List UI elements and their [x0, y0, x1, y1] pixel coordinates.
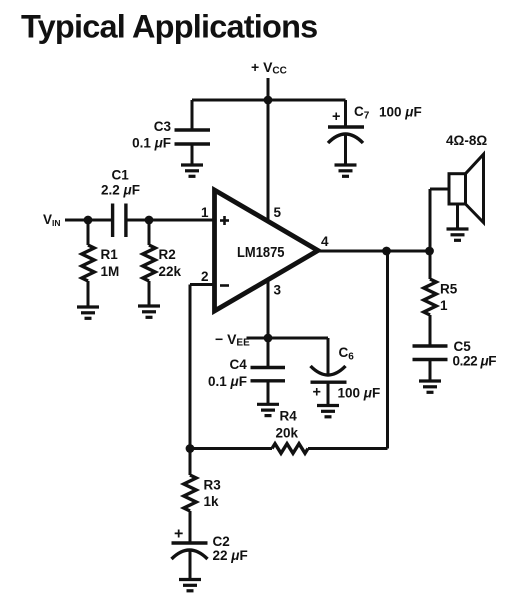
wire R3 top	[189, 449, 192, 476]
svg-text:C7: C7	[354, 104, 370, 122]
svg-text:− VEE: − VEE	[215, 331, 250, 349]
resistor R1	[82, 245, 94, 281]
node R1 junction	[84, 216, 93, 225]
ground C5	[419, 381, 441, 392]
capacitor C3	[175, 130, 211, 144]
wire input right	[126, 219, 216, 222]
svg-text:2: 2	[201, 269, 209, 284]
resistor R2	[143, 245, 155, 281]
wire C2 to ground	[189, 550, 192, 580]
capacitor C7	[328, 127, 364, 143]
node VCC junction	[264, 96, 273, 105]
wire speaker up	[429, 189, 432, 251]
wire speaker in	[430, 188, 450, 191]
wire output	[318, 250, 430, 253]
node VEE junction	[264, 334, 273, 343]
op-amp U1 LM1875 triangle	[215, 190, 319, 311]
svg-text:R2: R2	[159, 247, 176, 262]
svg-text:C1: C1	[112, 168, 130, 183]
capacitor C2	[172, 543, 208, 559]
wire feedback bottom left	[190, 447, 272, 450]
wire C6 drop	[327, 338, 330, 374]
wire top supply rail	[192, 99, 346, 102]
wire pin2 stub	[190, 283, 216, 286]
svg-text:R1: R1	[101, 247, 119, 262]
wire VCC stub	[267, 78, 270, 100]
svg-text:C5: C5	[454, 339, 472, 354]
capacitor C6	[311, 366, 347, 382]
ground R2	[138, 306, 160, 317]
speaker LS1	[449, 154, 484, 222]
ground C2	[179, 580, 201, 591]
wire R1 bottom	[87, 281, 90, 307]
svg-text:C3: C3	[154, 119, 172, 134]
svg-text:22 μF: 22 μF	[213, 548, 248, 563]
wire C7 drop	[344, 100, 347, 127]
resistor R5	[424, 279, 436, 315]
svg-text:4: 4	[321, 234, 329, 249]
capacitor C4	[251, 368, 286, 381]
ground C7	[335, 165, 357, 176]
svg-text:3: 3	[274, 283, 282, 298]
svg-text:0.22 μF: 0.22 μF	[453, 354, 497, 369]
svg-text:5: 5	[274, 205, 282, 220]
wire R5 bottom	[429, 315, 432, 346]
wire VEE rail	[247, 337, 329, 340]
svg-text:C6: C6	[339, 345, 355, 363]
op-amp plus input mark	[220, 216, 229, 225]
wire speaker to ground	[456, 204, 459, 229]
svg-text:R3: R3	[204, 478, 222, 493]
wire C6 to ground	[327, 382, 330, 405]
wire R5 top	[429, 251, 432, 279]
svg-text:R4: R4	[280, 409, 298, 424]
svg-text:C4: C4	[230, 357, 248, 372]
wire R1 top	[87, 220, 90, 245]
node output junction	[425, 247, 434, 256]
svg-text:2.2 μF: 2.2 μF	[101, 183, 140, 198]
svg-text:Typical Applications: Typical Applications	[21, 8, 317, 44]
ground C3	[181, 165, 203, 176]
svg-text:4Ω-8Ω: 4Ω-8Ω	[446, 133, 487, 148]
svg-text:1: 1	[201, 205, 209, 220]
wire R3 bottom	[189, 511, 192, 543]
resistor R4	[272, 444, 308, 454]
ground R1	[77, 307, 99, 318]
wire feedback bottom right	[308, 447, 388, 450]
wire C4 to ground	[267, 381, 270, 405]
wire pin5 supply	[267, 100, 270, 222]
svg-text:0.1 μF: 0.1 μF	[208, 374, 247, 389]
svg-text:1: 1	[440, 298, 448, 313]
svg-text:R5: R5	[440, 282, 458, 297]
capacitor C1	[113, 204, 126, 238]
ground speaker	[447, 229, 469, 240]
svg-text:VIN: VIN	[43, 212, 61, 228]
svg-text:+: +	[332, 109, 340, 125]
svg-text:100 μF: 100 μF	[379, 105, 422, 120]
wire feedback vertical right	[386, 251, 389, 449]
resistor R3	[184, 475, 196, 511]
svg-text:0.1 μF: 0.1 μF	[132, 136, 171, 151]
wire C7 to ground	[344, 134, 347, 165]
wire input left	[65, 219, 112, 222]
svg-text:+: +	[174, 526, 183, 543]
svg-text:20k: 20k	[276, 426, 299, 441]
capacitor C5	[413, 346, 448, 360]
ground C6	[317, 406, 339, 417]
svg-text:1k: 1k	[204, 494, 220, 509]
wire feedback vertical left	[189, 285, 192, 449]
wire R2 bottom	[148, 281, 151, 306]
wire C5 to ground	[429, 360, 432, 382]
svg-text:22k: 22k	[159, 264, 182, 279]
svg-text:100 μF: 100 μF	[338, 386, 381, 401]
node R3 junction	[186, 444, 195, 453]
node R2 junction	[145, 216, 154, 225]
op-amp minus input mark	[220, 284, 229, 287]
node feedback junction	[382, 247, 391, 256]
wire C3 drop	[191, 100, 194, 130]
wire R2 top	[148, 220, 151, 245]
svg-text:1M: 1M	[101, 264, 120, 279]
wire C3 to ground	[191, 144, 194, 165]
svg-text:+: +	[313, 385, 321, 401]
svg-text:C2: C2	[213, 534, 230, 549]
svg-text:+ VCC: + VCC	[251, 59, 287, 77]
wire pin3	[267, 279, 270, 338]
wire C4 drop	[267, 338, 270, 368]
ground C4	[257, 404, 279, 415]
svg-text:LM1875: LM1875	[237, 245, 285, 261]
